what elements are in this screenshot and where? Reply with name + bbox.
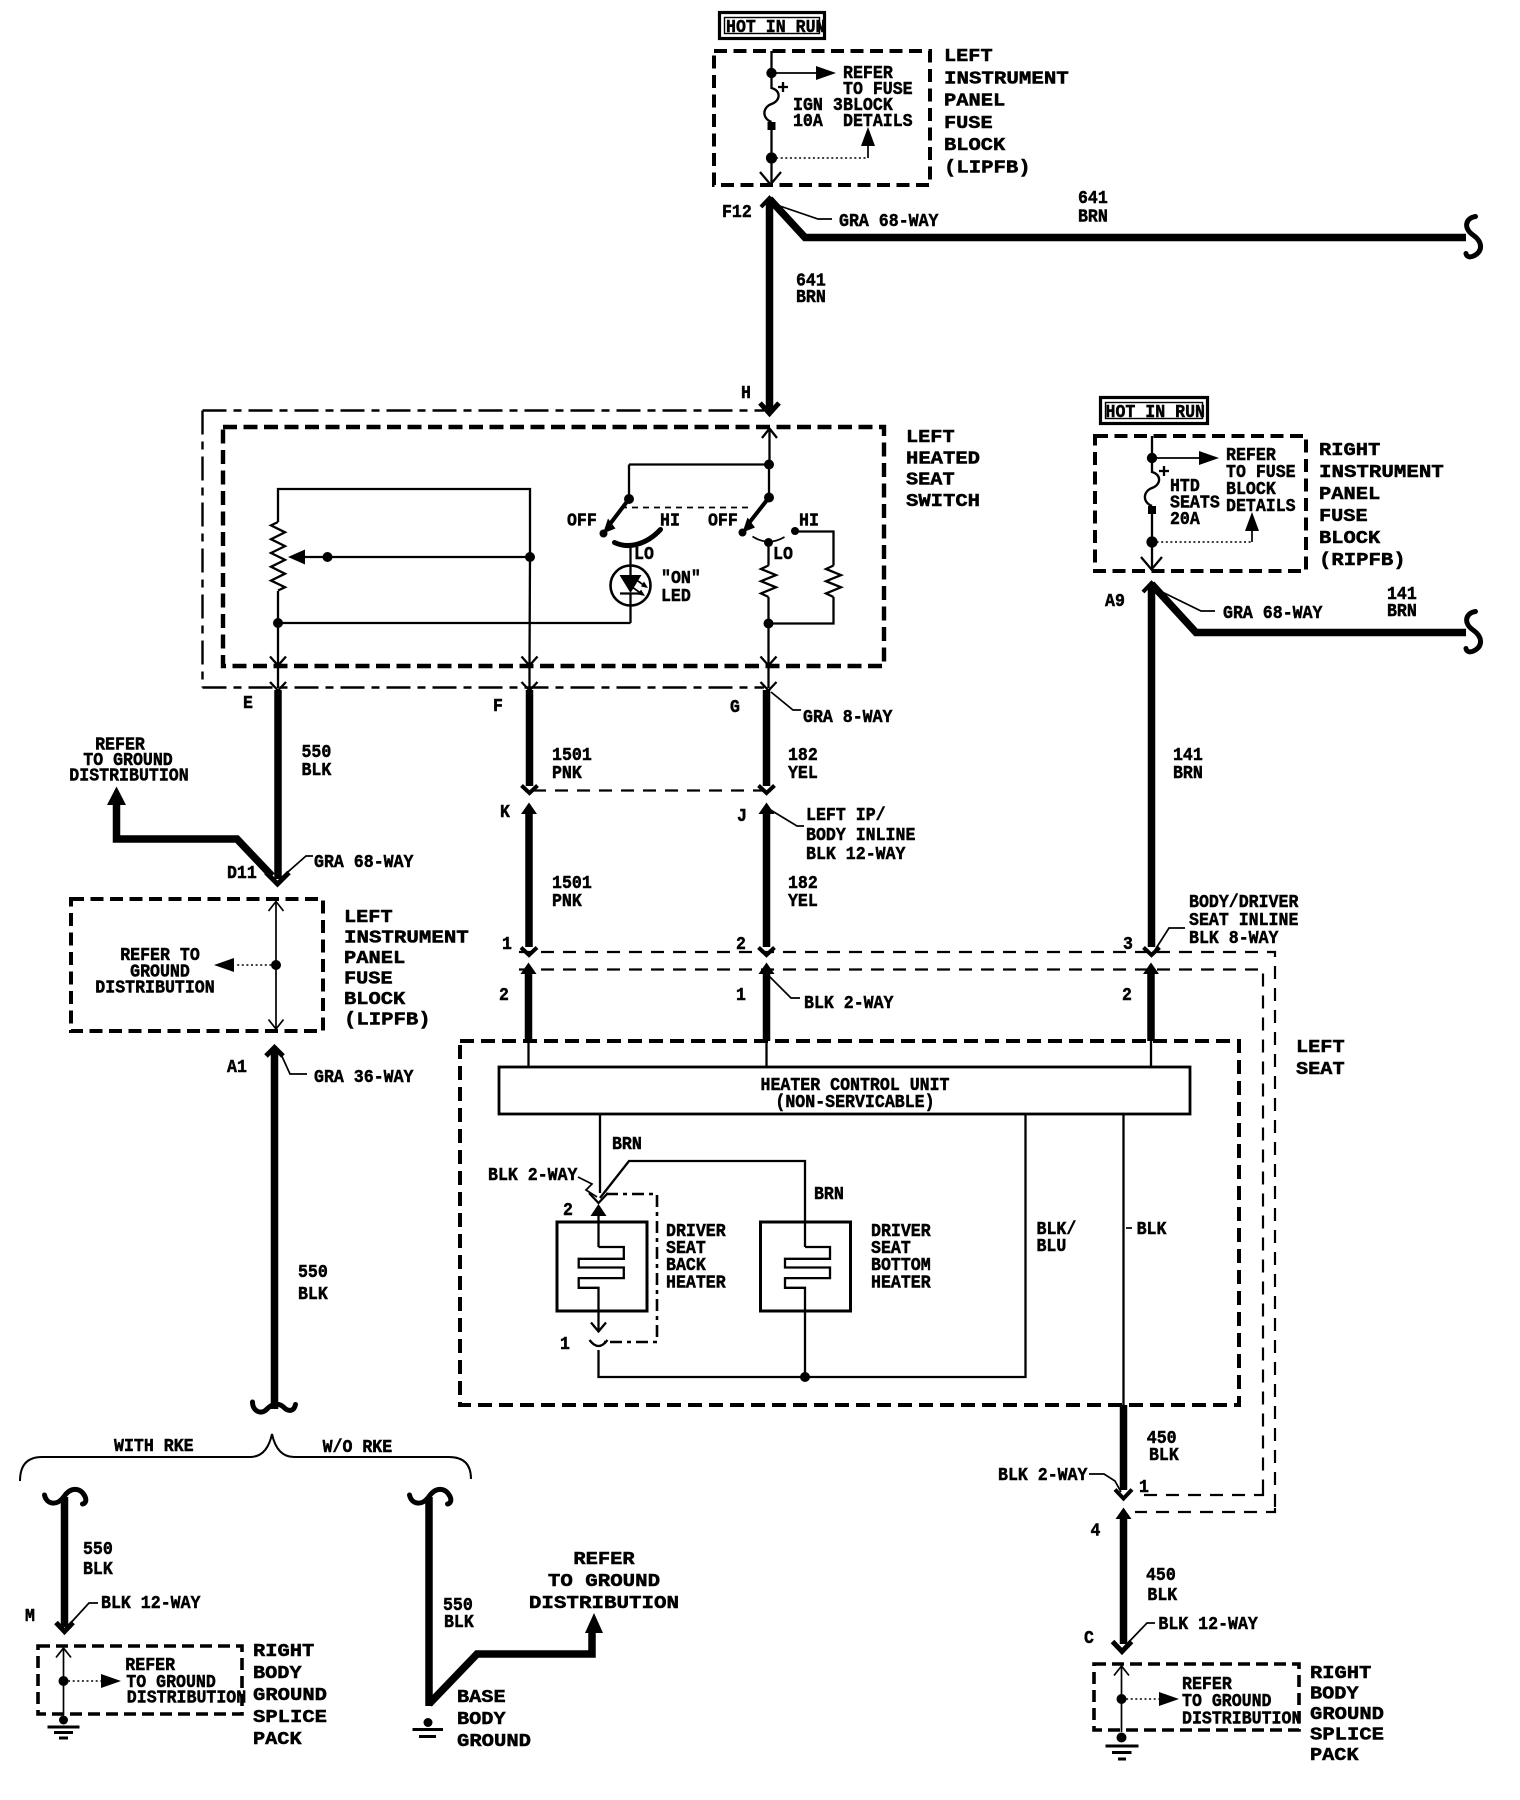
- svg-text:INSTRUMENT: INSTRUMENT: [344, 928, 469, 949]
- label DRIVER SEAT BOTTOM HEATER: [871, 1221, 931, 1294]
- svg-text:BLK 12-WAY: BLK 12-WAY: [101, 1593, 201, 1614]
- right switch contact arc: [753, 537, 785, 542]
- ground distribution arrow (base): [429, 1613, 603, 1704]
- connector chevron H: [760, 403, 779, 414]
- wire branch to bottom heater: [600, 1161, 805, 1247]
- svg-text:BLOCK: BLOCK: [944, 135, 1006, 156]
- label 550 BLK (A1): [298, 1262, 329, 1305]
- label HOT IN RUN (right): [1101, 398, 1208, 424]
- wires crossing to harness line: [278, 665, 769, 688]
- svg-text:RIGHT: RIGHT: [1310, 1663, 1371, 1684]
- svg-text:(NON-SERVICABLE): (NON-SERVICABLE): [775, 1092, 934, 1113]
- arrow E out of switch: [270, 623, 286, 666]
- connector arrow 4: [1116, 1508, 1132, 1520]
- svg-text:GROUND: GROUND: [1310, 1704, 1384, 1725]
- label RIGHT BODY GROUND SPLICE PACK (left): [253, 1641, 327, 1750]
- node left OFF contact: [600, 530, 608, 538]
- svg-text:TO GROUND: TO GROUND: [548, 1571, 660, 1592]
- svg-text:PACK: PACK: [253, 1729, 303, 1750]
- svg-text:GROUND: GROUND: [457, 1731, 531, 1752]
- svg-text:1: 1: [1139, 1477, 1149, 1498]
- label REFER TO GROUND DISTRIBUTION (right box): [1182, 1674, 1301, 1730]
- wire BRN from HCU: [599, 1114, 601, 1193]
- dotted refer line to details arrow: [772, 127, 876, 158]
- label HTD SEATS 20A: [1170, 476, 1220, 530]
- svg-text:2: 2: [563, 1200, 573, 1221]
- wire LED bottom to bus: [629, 606, 631, 624]
- LED "ON" indicator: [611, 566, 651, 606]
- svg-text:INSTRUMENT: INSTRUMENT: [1319, 462, 1444, 483]
- wire to right ground: [1121, 1699, 1123, 1732]
- svg-text:PACK: PACK: [1310, 1745, 1360, 1766]
- wire 141 into HCU: [1150, 1041, 1152, 1067]
- label 641 BRN (horizontal): [1078, 188, 1108, 228]
- label REFER TO FUSE BLOCK DETAILS (left box): [843, 63, 913, 132]
- resistor (LO): [761, 566, 776, 597]
- svg-text:BLOCK: BLOCK: [1319, 528, 1381, 549]
- svg-text:K: K: [500, 802, 511, 823]
- wire M 550 BLK: [61, 1497, 69, 1627]
- svg-text:GRA 68-WAY: GRA 68-WAY: [1223, 603, 1323, 624]
- svg-text:PANEL: PANEL: [344, 948, 405, 969]
- svg-text:BLK 12-WAY: BLK 12-WAY: [1158, 1614, 1258, 1635]
- svg-text:450: 450: [1146, 1565, 1176, 1586]
- svg-text:W/O RKE: W/O RKE: [323, 1437, 393, 1458]
- svg-text:FUSE: FUSE: [344, 969, 393, 990]
- svg-text:LEFT: LEFT: [906, 427, 955, 448]
- wire feed into fuse (right): [1151, 436, 1153, 458]
- label REFER TO GROUND DISTRIBUTION (left box): [125, 1655, 246, 1709]
- wire 141 BRN horizontal run: [1152, 584, 1467, 633]
- potentiometer wiper arrow: [288, 550, 530, 565]
- inline connector dashed row 2: [519, 970, 1263, 1492]
- node on wiper line: [323, 552, 333, 562]
- wire J into HCU: [765, 1041, 767, 1067]
- connector chevron E: [270, 682, 286, 691]
- svg-text:YEL: YEL: [788, 763, 818, 784]
- svg-text:J: J: [737, 806, 747, 827]
- svg-text:BLK: BLK: [444, 1612, 475, 1633]
- driver seat bottom heater box: [761, 1222, 851, 1311]
- svg-text:HI: HI: [799, 511, 819, 532]
- connector chevron M: [56, 1623, 73, 1632]
- label BODY/DRIVER SEAT INLINE BLK 8-WAY: [1189, 892, 1299, 949]
- fuse IGN 3 10A: [764, 73, 778, 153]
- ganged switch link (dashed): [621, 507, 751, 509]
- node pot bottom: [273, 618, 283, 628]
- svg-text:BLK 2-WAY: BLK 2-WAY: [804, 993, 894, 1014]
- leader dash BLK: [1126, 1227, 1132, 1229]
- svg-text:BODY: BODY: [253, 1663, 303, 1684]
- label REFER TO GROUND DISTRIBUTION (base): [529, 1549, 679, 1614]
- label RIGHT BODY GROUND SPLICE PACK (right): [1310, 1663, 1384, 1766]
- right instrument panel fuse block RIPFB (dashed box): [1095, 436, 1306, 571]
- wire BLK from HCU: [1122, 1114, 1124, 1405]
- svg-text:DISTRIBUTION: DISTRIBUTION: [95, 978, 214, 999]
- svg-text:GRA 68-WAY: GRA 68-WAY: [314, 852, 414, 873]
- wire K 1501 PNK lower: [525, 813, 533, 947]
- leader GRA 68-WAY: [774, 204, 832, 219]
- leader GRA 68-WAY (A9): [1156, 589, 1215, 611]
- svg-text:D11: D11: [227, 863, 257, 884]
- wire 141 BRN vertical: [1148, 584, 1156, 947]
- connector chevron K bottom: [521, 948, 537, 956]
- node right ground box junction: [1117, 1694, 1127, 1704]
- label 550 BLK (E): [302, 742, 333, 781]
- label DRIVER SEAT BACK HEATER: [666, 1221, 726, 1294]
- node right OFF contact: [739, 529, 747, 537]
- leader GRA 68-WAY (D11): [281, 856, 313, 878]
- svg-text:DISTRIBUTION: DISTRIBUTION: [69, 766, 188, 787]
- svg-text:G: G: [730, 697, 740, 718]
- connector chevron G lower: [759, 786, 775, 794]
- svg-text:DISTRIBUTION: DISTRIBUTION: [1182, 1709, 1301, 1730]
- arrow G out of switch: [761, 624, 777, 666]
- node right LO contact: [764, 538, 773, 547]
- node at fuse top: [766, 68, 776, 78]
- svg-text:HOT IN RUN: HOT IN RUN: [1106, 402, 1206, 423]
- svg-text:OFF: OFF: [567, 511, 597, 532]
- svg-text:WITH RKE: WITH RKE: [114, 1436, 194, 1457]
- fuse HTD SEATS 20A: [1145, 458, 1159, 537]
- connector chevron A1: [266, 1048, 283, 1057]
- leader BODY/DRIVER SEAT INLINE: [1155, 928, 1185, 950]
- svg-text:GRA 36-WAY: GRA 36-WAY: [314, 1067, 414, 1088]
- dotted refer line to details arrow (right): [1152, 512, 1259, 542]
- svg-text:GRA 68-WAY: GRA 68-WAY: [839, 211, 939, 232]
- svg-text:SPLICE: SPLICE: [1310, 1725, 1384, 1746]
- node resistor junction: [764, 619, 774, 629]
- label 450 BLK (upper): [1147, 1428, 1180, 1466]
- svg-text:10A: 10A: [793, 111, 824, 132]
- svg-text:LO: LO: [634, 544, 654, 565]
- svg-text:HEATER: HEATER: [871, 1273, 931, 1294]
- svg-text:SPLICE: SPLICE: [253, 1707, 327, 1728]
- left switch LO-HI arc: [615, 530, 661, 546]
- wire break curl (641 BRN right end): [1466, 217, 1481, 257]
- connector chevron C: [1113, 1642, 1132, 1652]
- inline connector dashed row 1 tail: [1135, 1508, 1275, 1512]
- svg-text:2: 2: [499, 985, 509, 1006]
- back heater dash-dot outline: [604, 1194, 657, 1342]
- svg-text:BLK: BLK: [1137, 1219, 1168, 1240]
- wire 450 BLK lower: [1120, 1518, 1128, 1644]
- svg-text:BLK 8-WAY: BLK 8-WAY: [1189, 928, 1279, 949]
- svg-text:550: 550: [298, 1262, 328, 1283]
- entry arrow into right ground box: [1114, 1666, 1129, 1699]
- LIPFB ground distribution box (dashed): [71, 899, 323, 1031]
- wire break curl (A1 bottom): [253, 1402, 296, 1412]
- entry arrow from H: [762, 429, 777, 465]
- connector chevron 450: [1115, 1490, 1132, 1499]
- svg-text:HOT IN RUN: HOT IN RUN: [726, 17, 826, 38]
- label REFER TO GROUND DISTRIBUTION (E branch): [69, 735, 188, 787]
- label 550 BLK (base): [443, 1595, 475, 1633]
- connector arrow J: [759, 803, 775, 815]
- harness boundary dash-dot lines (switch area): [203, 411, 765, 688]
- svg-text:BRN: BRN: [612, 1134, 642, 1155]
- connector arrow out of RIPFB bottom: [1141, 542, 1162, 570]
- wire 641 BRN horizontal run: [770, 199, 1467, 238]
- bottom heater element: [785, 1247, 830, 1311]
- label 182 YEL (upper): [788, 745, 818, 784]
- svg-text:SEAT: SEAT: [1296, 1059, 1345, 1080]
- right body ground splice pack box (dashed): [1094, 1664, 1299, 1730]
- wire K row2 stub: [525, 973, 533, 1041]
- label 550 BLK (M): [83, 1539, 114, 1580]
- svg-text:20A: 20A: [1170, 509, 1201, 530]
- svg-text:M: M: [25, 1606, 35, 1627]
- wire feed into fuse: [770, 51, 772, 73]
- wire G 182 YEL: [763, 690, 771, 786]
- svg-text:RIGHT: RIGHT: [253, 1641, 314, 1662]
- label LEFT SEAT: [1296, 1037, 1345, 1080]
- label 1501 PNK (upper): [552, 745, 592, 784]
- node right HI contact: [791, 527, 799, 535]
- wire E 550 BLK: [274, 690, 282, 879]
- svg-text:2: 2: [1122, 985, 1132, 1006]
- svg-text:DISTRIBUTION: DISTRIBUTION: [127, 1688, 246, 1709]
- svg-text:GROUND: GROUND: [253, 1685, 327, 1706]
- label 182 YEL (lower): [788, 873, 818, 912]
- svg-text:BODY: BODY: [457, 1709, 507, 1730]
- svg-text:BLK: BLK: [1149, 1445, 1180, 1466]
- connector chevron F: [522, 682, 538, 691]
- node switch feed junction: [764, 460, 774, 470]
- resistor (HI): [826, 566, 841, 597]
- svg-text:BLK 12-WAY: BLK 12-WAY: [806, 844, 906, 865]
- wire K into HCU: [527, 1041, 529, 1067]
- svg-text:BODY INLINE: BODY INLINE: [806, 825, 915, 846]
- node heater return junction: [800, 1372, 810, 1382]
- label 450 BLK (lower): [1146, 1565, 1178, 1606]
- svg-text:BLU: BLU: [1037, 1236, 1067, 1257]
- svg-text:1: 1: [736, 985, 746, 1006]
- label LEFT IP/ BODY INLINE BLK 12-WAY: [806, 805, 915, 865]
- svg-text:LED: LED: [661, 586, 691, 607]
- svg-text:BLK: BLK: [298, 1284, 329, 1305]
- svg-text:LEFT: LEFT: [344, 907, 393, 928]
- wire A1 550 BLK: [271, 1048, 279, 1409]
- svg-text:(RIPFB): (RIPFB): [1319, 550, 1406, 571]
- wire break curl (141 BRN right end): [1466, 612, 1481, 652]
- svg-text:H: H: [741, 383, 751, 404]
- wire break curl (W/O RKE branch top): [410, 1489, 451, 1504]
- svg-text:E: E: [243, 693, 253, 714]
- svg-text:DETAILS: DETAILS: [843, 111, 913, 132]
- option brace WITH RKE / W/O RKE: [20, 1434, 471, 1481]
- svg-text:4: 4: [1091, 1521, 1101, 1542]
- node left switch pivot: [624, 494, 634, 504]
- entry arrow into ground box: [269, 902, 284, 966]
- svg-text:PNK: PNK: [552, 891, 583, 912]
- connector chevron heater 2: [589, 1193, 608, 1203]
- label BASE BODY GROUND: [457, 1687, 531, 1752]
- svg-text:INSTRUMENT: INSTRUMENT: [944, 68, 1069, 89]
- ground symbol (right splice pack): [1106, 1733, 1139, 1760]
- svg-text:SWITCH: SWITCH: [906, 491, 980, 512]
- svg-text:1: 1: [560, 1334, 570, 1355]
- svg-text:HEATED: HEATED: [906, 448, 980, 469]
- svg-text:BRN: BRN: [796, 287, 826, 308]
- svg-text:HI: HI: [660, 511, 680, 532]
- wire bottom bus to LED: [278, 622, 631, 624]
- label "ON" LED: [661, 568, 701, 607]
- inline connector dashed row 1: [519, 952, 1275, 1508]
- svg-text:DISTRIBUTION: DISTRIBUTION: [529, 1593, 679, 1614]
- node at fuse bottom (right): [1146, 536, 1157, 547]
- connector chevron F lower: [522, 786, 538, 794]
- svg-text:F: F: [493, 696, 503, 717]
- leader BLK 2-WAY (row2): [769, 976, 800, 998]
- svg-text:BRN: BRN: [1387, 601, 1417, 622]
- label LEFT INSTRUMENT PANEL FUSE BLOCK (LIPFB) lower: [344, 907, 469, 1031]
- label RIGHT INSTRUMENT PANEL FUSE BLOCK (RIPFB): [1319, 440, 1444, 571]
- svg-text:(LIPFB): (LIPFB): [944, 158, 1031, 179]
- svg-text:(LIPFB): (LIPFB): [344, 1010, 431, 1031]
- svg-text:BODY: BODY: [1310, 1684, 1360, 1705]
- refer-to arrow (right) in right ground box: [1122, 1692, 1180, 1706]
- svg-text:BLK 2-WAY: BLK 2-WAY: [488, 1165, 578, 1186]
- refer-to arrow (right) in LIPFB: [772, 66, 837, 80]
- wire W/O RKE 550 BLK: [425, 1497, 433, 1706]
- leader GRA 8-WAY: [771, 692, 801, 710]
- wire J row2 stub: [763, 973, 771, 1041]
- node A9 chevron: [1143, 583, 1160, 592]
- wire LO to left resistor: [767, 544, 769, 566]
- svg-text:LEFT: LEFT: [944, 46, 993, 67]
- refer-to arrow (left) in ground box: [214, 958, 276, 972]
- plus sign: [778, 82, 788, 92]
- left switch blade (to OFF): [603, 499, 629, 534]
- wire pot bottom: [277, 591, 279, 623]
- node wiper/F junction: [525, 552, 535, 562]
- wire 450 BLK upper: [1120, 1405, 1128, 1490]
- wire LO to LED: [629, 547, 631, 566]
- svg-text:YEL: YEL: [788, 891, 818, 912]
- leader GRA 36-WAY: [280, 1052, 307, 1074]
- left heated seat switch (dashed box): [223, 427, 884, 666]
- label HEATER CONTROL UNIT (NON-SERVICABLE): [761, 1075, 950, 1113]
- plus sign (right): [1159, 466, 1169, 476]
- node right switch pivot: [764, 493, 774, 503]
- label HOT IN RUN (left): [720, 13, 826, 39]
- label REFER TO FUSE BLOCK DETAILS (right box): [1226, 445, 1296, 517]
- svg-text:PANEL: PANEL: [944, 91, 1005, 112]
- connector chevron heater 1: [590, 1340, 608, 1346]
- label LEFT HEATED SEAT SWITCH: [906, 427, 980, 512]
- svg-text:BLK: BLK: [1147, 1585, 1178, 1606]
- wire BLK/BLU return to HCU: [805, 1114, 1026, 1377]
- leader BLK 2-WAY (lower right): [1089, 1474, 1121, 1492]
- exit arrow of ground box: [269, 965, 284, 1029]
- label 141 BRN (top right): [1387, 584, 1417, 622]
- svg-text:FUSE: FUSE: [944, 113, 993, 134]
- ground symbol (base body ground): [413, 1718, 444, 1737]
- svg-text:BASE: BASE: [457, 1687, 506, 1708]
- connector arrow K row2: [521, 963, 537, 975]
- leader BLK 2-WAY (heater connector): [578, 1177, 597, 1197]
- connector arrow 141 row2: [1143, 963, 1159, 975]
- wire 641 BRN vertical to H: [766, 199, 774, 412]
- label 641 BRN (vertical): [796, 271, 826, 309]
- svg-text:RIGHT: RIGHT: [1319, 440, 1380, 461]
- potentiometer resistor: [271, 522, 285, 591]
- svg-text:REFER: REFER: [573, 1549, 635, 1570]
- arrow out of back heater: [591, 1311, 606, 1332]
- svg-text:BRN: BRN: [1173, 763, 1203, 784]
- svg-text:SEAT: SEAT: [906, 470, 955, 491]
- refer-to arrow in RIPFB: [1152, 451, 1219, 465]
- label IGN 3 10A: [793, 95, 843, 132]
- wire to left ground: [63, 1681, 65, 1715]
- svg-text:3: 3: [1123, 934, 1133, 955]
- node at fuse bottom: [766, 152, 777, 163]
- ground distribution arrow (thick): [107, 787, 272, 877]
- potentiometer top loop wire: [278, 489, 530, 557]
- leader LEFT IP/BODY INLINE: [769, 809, 804, 826]
- svg-text:BLK: BLK: [83, 1559, 114, 1580]
- label REFER TO GROUND DISTRIBUTION (in box): [95, 945, 214, 999]
- wire junction to right pivot: [768, 465, 770, 498]
- label 1501 PNK (lower): [552, 873, 592, 912]
- svg-text:GRA 8-WAY: GRA 8-WAY: [803, 707, 893, 728]
- svg-text:HEATER: HEATER: [666, 1273, 726, 1294]
- left instrument panel fuse block LIPFB (dashed box): [714, 51, 930, 185]
- svg-text:LEFT IP/: LEFT IP/: [806, 805, 886, 826]
- svg-text:PANEL: PANEL: [1319, 484, 1380, 505]
- wire resistors to G node: [769, 597, 834, 624]
- wire junction to left switch: [629, 465, 769, 500]
- svg-text:550: 550: [83, 1539, 113, 1560]
- inline connector dashed row 2 tail: [1136, 1491, 1263, 1495]
- svg-text:BRN: BRN: [814, 1184, 844, 1205]
- svg-text:A1: A1: [227, 1057, 247, 1078]
- connector arrow out of LIPFB bottom: [760, 158, 781, 185]
- wire back heater return: [599, 1350, 806, 1377]
- svg-text:PNK: PNK: [552, 763, 583, 784]
- refer-to arrow in left ground box: [64, 1674, 122, 1688]
- svg-text:A9: A9: [1105, 591, 1125, 612]
- driver seat back heater box: [557, 1222, 647, 1311]
- connector arrow into back heater: [591, 1204, 607, 1247]
- svg-text:DETAILS: DETAILS: [1226, 496, 1296, 517]
- wire J 182 YEL lower: [763, 813, 771, 947]
- leader BLK 12-WAY (M): [67, 1603, 98, 1627]
- ground symbol (left splice pack): [48, 1716, 80, 1739]
- svg-text:OFF: OFF: [708, 511, 738, 532]
- wire F 1501 PNK: [526, 690, 534, 786]
- wire HI to right resistor: [797, 532, 834, 566]
- svg-text:BRN: BRN: [1078, 207, 1108, 228]
- right body ground splice pack box left (dashed): [38, 1646, 242, 1714]
- node F12 chevron: [761, 198, 778, 207]
- node left ground box junction: [59, 1676, 69, 1686]
- node at fuse top (right): [1147, 453, 1157, 463]
- inline connector dashed line (F/G): [533, 789, 764, 791]
- wire break curl (M branch top): [45, 1489, 86, 1504]
- svg-text:LO: LO: [773, 544, 793, 565]
- connector arrow K: [521, 803, 537, 815]
- svg-text:BLOCK: BLOCK: [344, 989, 406, 1010]
- back heater element: [579, 1247, 624, 1311]
- svg-text:1: 1: [502, 934, 512, 955]
- left seat (dashed box): [460, 1041, 1239, 1405]
- label LEFT INSTRUMENT PANEL FUSE BLOCK (LIPFB): [944, 46, 1069, 179]
- svg-text:C: C: [1084, 1628, 1094, 1649]
- svg-text:BLK: BLK: [302, 760, 333, 781]
- svg-text:F12: F12: [722, 202, 752, 223]
